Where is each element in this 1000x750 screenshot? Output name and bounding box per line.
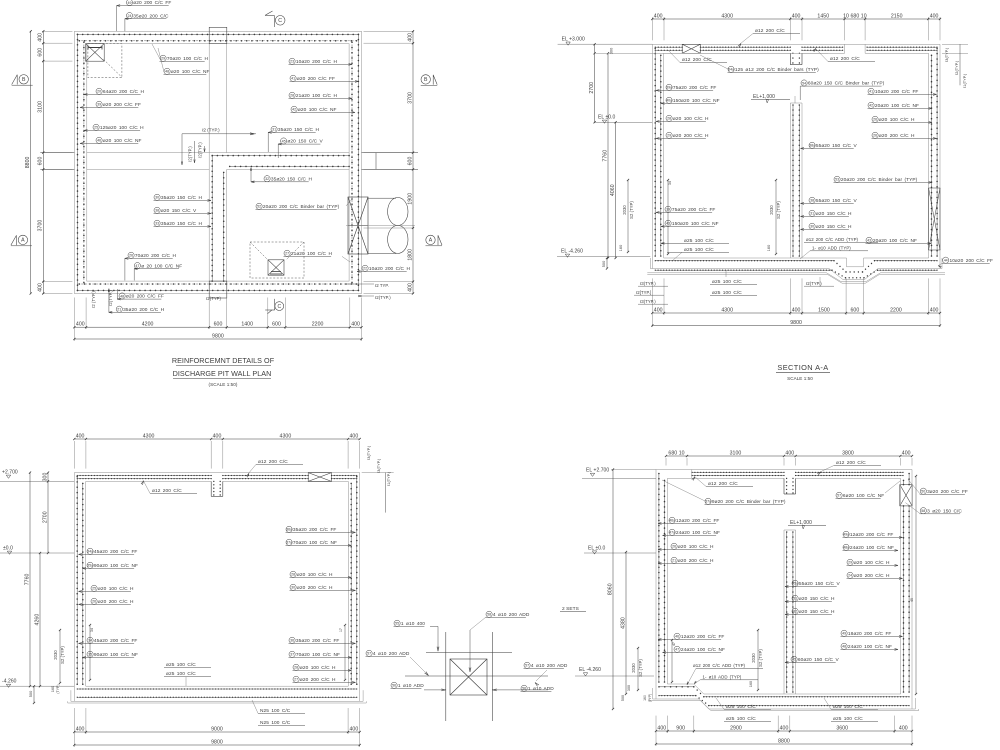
plan outer wall rebar left (77, 34, 79, 290)
section C label 45 (791, 656, 797, 662)
svg-text:ø20 200 C/C H: ø20 200 C/C H (673, 133, 709, 139)
detail label 58 (486, 611, 492, 617)
svg-text:4300: 4300 (721, 13, 733, 19)
svg-text:8800: 8800 (778, 738, 790, 744)
section A-A top dimension chain (651, 17, 653, 40)
svg-text:150ø20 100 C/C NF: 150ø20 100 C/C NF (673, 98, 720, 104)
svg-text:50: 50 (921, 490, 925, 494)
plan label 32 (264, 176, 270, 182)
detail vertical line right (491, 632, 493, 721)
section C floor rebar (659, 686, 694, 688)
svg-text:31: 31 (810, 212, 814, 216)
plan outer wall inner boundary (87, 44, 349, 281)
section B top slab crossed box (308, 473, 331, 482)
svg-text:2030: 2030 (631, 663, 636, 673)
plan label 46 (96, 137, 102, 143)
plan bottom sump box (268, 260, 284, 275)
section A-A label 26b right (872, 132, 878, 138)
plan label 29 (160, 55, 166, 61)
section C label 58 (920, 508, 926, 514)
svg-text:2 SETS: 2 SETS (562, 606, 579, 612)
svg-text:35ø20 150 C/C H: 35ø20 150 C/C H (271, 176, 313, 182)
svg-text:75ø20 200 C/C FF: 75ø20 200 C/C FF (673, 85, 717, 91)
svg-text:7760: 7760 (24, 573, 30, 585)
svg-text:25: 25 (94, 126, 98, 130)
svg-text:(TYP): (TYP) (648, 694, 652, 703)
detail label 56 right (521, 685, 527, 691)
section B label 30 (290, 584, 296, 590)
svg-text:EL -4.260: EL -4.260 (561, 249, 583, 255)
plan section marker A right (426, 235, 435, 244)
section A-A label 30 (809, 223, 815, 229)
svg-text:C: C (278, 18, 282, 24)
detail horizontal line upper (426, 652, 512, 654)
section C label 47a (669, 529, 675, 535)
section A-A lean concrete line (647, 273, 945, 282)
svg-text:21ø20 100 C/C H: 21ø20 100 C/C H (296, 93, 338, 99)
svg-text:ℓ3(TYP.): ℓ3(TYP.) (377, 458, 381, 473)
section B inner bracket right (344, 625, 346, 680)
svg-text:REINFORCEMNT DETAILS OF: REINFORCEMNT DETAILS OF (172, 356, 275, 365)
section B label 28b (293, 664, 299, 670)
svg-text:30: 30 (155, 196, 159, 200)
section B label 35a (87, 562, 93, 568)
svg-text:ø20 200 C/C H: ø20 200 C/C H (879, 133, 915, 139)
svg-text:70ø20 100 C/C NF: 70ø20 100 C/C NF (296, 652, 340, 658)
svg-text:ℓ2(TYP.): ℓ2(TYP.) (375, 295, 391, 300)
section C label 49a (843, 531, 849, 537)
svg-text:ø12 200 C/C ADD (TYP): ø12 200 C/C ADD (TYP) (693, 663, 746, 668)
svg-text:47: 47 (135, 264, 139, 268)
section A-A label 43 right (866, 237, 872, 243)
section A-A label 53 binder (834, 176, 840, 182)
section C label 46a (669, 517, 675, 523)
plan section marker A left (18, 235, 27, 244)
svg-text:160: 160 (749, 681, 753, 687)
section B left wall rebar (76, 477, 78, 685)
section A-A label 29 (666, 132, 672, 138)
svg-text:10ø20 200 C/C FF: 10ø20 200 C/C FF (950, 258, 994, 264)
svg-text:4 ø10 200 ADD: 4 ø10 200 ADD (493, 612, 530, 618)
svg-text:49: 49 (842, 632, 846, 636)
svg-text:EL -4.260: EL -4.260 (579, 667, 601, 673)
svg-text:48a: 48a (843, 546, 849, 550)
svg-text:ℓ2(TYP.): ℓ2(TYP.) (806, 281, 822, 286)
svg-text:ø20 100 C/C H: ø20 100 C/C H (879, 117, 915, 123)
svg-text:34a: 34a (87, 550, 93, 554)
plan label 33 (154, 220, 160, 226)
plan interior horizontal wall boundaries (209, 152, 349, 154)
section B label 37a (286, 539, 292, 545)
section B left dims 2030 S2 (59, 630, 61, 683)
svg-text:64a: 64a (728, 68, 734, 72)
svg-text:43: 43 (666, 222, 670, 226)
svg-text:SCALE 1:50: SCALE 1:50 (787, 376, 813, 381)
svg-text:160: 160 (767, 245, 771, 252)
svg-text:600: 600 (272, 322, 281, 328)
svg-text:45: 45 (282, 139, 286, 143)
svg-text:ℓ1(TYP.): ℓ1(TYP.) (387, 471, 391, 486)
section B lean concrete (68, 702, 367, 704)
svg-text:46: 46 (675, 635, 679, 639)
svg-text:2030: 2030 (53, 650, 58, 660)
svg-text:680 10: 680 10 (668, 450, 684, 456)
svg-text:EL ±0.0: EL ±0.0 (598, 115, 616, 121)
svg-text:+2.700: +2.700 (2, 470, 18, 476)
svg-text:ℓ2 (TYP.): ℓ2 (TYP.) (202, 128, 220, 133)
svg-text:ø20 200 C/C FF: ø20 200 C/C FF (297, 76, 335, 82)
svg-text:400: 400 (349, 433, 358, 439)
section A-A right top bracket dims (942, 43, 968, 45)
svg-text:31: 31 (793, 597, 797, 601)
svg-text:ø12 200 C/C: ø12 200 C/C (830, 56, 860, 62)
svg-text:36: 36 (290, 639, 294, 643)
section B left dims (47, 473, 49, 553)
plan outer wall rebar right (357, 34, 359, 290)
section C bottom overall 8800 (655, 733, 657, 746)
svg-text:6ø20 100 C/C NF: 6ø20 100 C/C NF (843, 493, 884, 499)
section A-A label 39a (666, 84, 672, 90)
plan section marker C top (275, 15, 285, 25)
plan label 45 (281, 138, 287, 144)
section C label 47 (674, 646, 680, 652)
section A-A bottom dimension chain (651, 278, 653, 315)
section B label 36a (286, 526, 292, 532)
svg-text:ℓ2(TYP.): ℓ2(TYP.) (188, 146, 193, 162)
svg-text:4300: 4300 (280, 433, 292, 439)
svg-text:1900: 1900 (407, 193, 413, 205)
plan left dimension chain (42, 30, 72, 32)
section B label 27 (293, 676, 299, 682)
section A-A label 54 binder bar (801, 80, 807, 86)
plan label 38 (154, 207, 160, 213)
svg-text:24ø20 100 C/C NF: 24ø20 100 C/C NF (850, 545, 894, 551)
svg-text:26: 26 (672, 545, 676, 549)
svg-text:S2 (TYP): S2 (TYP) (638, 659, 643, 677)
section C hanging stub (783, 478, 785, 494)
plan bottom sump dashed frustum (250, 242, 304, 278)
svg-text:2030: 2030 (769, 205, 774, 215)
plan pump circles (388, 198, 408, 226)
svg-text:90ø20 100 C/C NF: 90ø20 100 C/C NF (94, 563, 138, 569)
svg-text:20ø20 200 C/C Binder bar (TYP): 20ø20 200 C/C Binder bar (TYP) (841, 177, 918, 183)
svg-text:12ø20 200 C/C FF: 12ø20 200 C/C FF (850, 532, 894, 538)
svg-text:57: 57 (367, 652, 371, 656)
svg-text:EL ±0.0: EL ±0.0 (588, 545, 606, 551)
svg-text:43: 43 (867, 239, 871, 243)
section C label 49 (841, 630, 847, 636)
svg-text:(SCALE 1:50): (SCALE 1:50) (209, 382, 238, 387)
svg-text:2700: 2700 (589, 82, 595, 94)
svg-text:33: 33 (155, 222, 159, 226)
svg-text:EL +3.000: EL +3.000 (562, 36, 585, 42)
svg-text:55ø20 150 C/C V: 55ø20 150 C/C V (816, 198, 858, 204)
svg-text:1- ø10 ADD (TYP): 1- ø10 ADD (TYP) (812, 246, 851, 251)
svg-text:45: 45 (792, 658, 796, 662)
svg-text:ø12 200 C/C: ø12 200 C/C (836, 460, 866, 466)
svg-text:ø20 100 C/C NF: ø20 100 C/C NF (171, 69, 210, 75)
svg-text:ø20 200 C/C FF: ø20 200 C/C FF (133, 0, 171, 6)
svg-text:ℓ1(TYP.): ℓ1(TYP.) (963, 73, 967, 88)
svg-text:EL +2.700: EL +2.700 (586, 468, 609, 474)
svg-text:2900: 2900 (730, 725, 742, 731)
svg-text:34: 34 (88, 639, 92, 643)
svg-text:900: 900 (676, 725, 685, 731)
detail horizontal line middle (405, 675, 548, 677)
svg-text:35ø20 150 C/C H: 35ø20 150 C/C H (161, 195, 203, 201)
svg-text:29: 29 (848, 561, 852, 565)
svg-text:42: 42 (869, 104, 873, 108)
svg-text:29: 29 (667, 134, 671, 138)
detail vertical line left (445, 632, 447, 721)
section C inner bracket left (671, 640, 673, 682)
plan interior vertical wall boundaries (208, 153, 210, 282)
svg-text:300: 300 (42, 473, 48, 482)
section C left wall rebar (658, 474, 660, 683)
svg-text:47: 47 (672, 642, 676, 646)
svg-text:70ø20 200 C/C H: 70ø20 200 C/C H (135, 253, 177, 259)
detail label 57 left (366, 650, 372, 656)
svg-text:4260: 4260 (34, 614, 40, 626)
svg-text:3ø20 200 C/C FF: 3ø20 200 C/C FF (927, 489, 968, 495)
svg-text:30: 30 (291, 586, 295, 590)
plan label 53 binder (256, 203, 262, 209)
section B floor slab (86, 685, 349, 687)
svg-text:C: C (277, 304, 281, 310)
plan construction joint lines top chamber (208, 44, 210, 153)
svg-text:600: 600 (407, 157, 413, 166)
svg-text:12ø20 200 C/C FF: 12ø20 200 C/C FF (681, 634, 725, 640)
svg-text:35ø20 200 C/C FF: 35ø20 200 C/C FF (293, 527, 337, 533)
section C label 46 (674, 633, 680, 639)
svg-text:ø20 200 C/C FF: ø20 200 C/C FF (103, 102, 141, 108)
section C label 24 (847, 572, 853, 578)
svg-text:A: A (21, 238, 25, 244)
svg-text:26: 26 (92, 600, 96, 604)
svg-text:125ø20 100 C/C H: 125ø20 100 C/C H (100, 125, 144, 131)
svg-text:31: 31 (272, 128, 276, 132)
plan top wall stub block (209, 27, 227, 43)
detail label 55 (394, 620, 400, 626)
svg-text:70ø20 100 C/C NF: 70ø20 100 C/C NF (293, 540, 337, 546)
section B label 28 (290, 571, 296, 577)
plan outer wall rebar bottom (78, 289, 359, 291)
plan label 47 (134, 263, 140, 269)
section B left wall boundaries (73, 473, 75, 702)
svg-text:10 680 10: 10 680 10 (843, 13, 867, 19)
svg-text:8060: 8060 (607, 583, 613, 595)
svg-text:1500: 1500 (818, 307, 830, 313)
svg-text:36a: 36a (286, 528, 292, 532)
svg-text:400: 400 (792, 307, 801, 313)
svg-text:18ø20 200 C/C FF: 18ø20 200 C/C FF (848, 631, 892, 637)
section B top slab boundaries (74, 472, 359, 474)
svg-text:26: 26 (129, 254, 133, 258)
section C bottom dimension chain (655, 716, 657, 733)
svg-text:12ø20 200 C/C FF: 12ø20 200 C/C FF (676, 518, 720, 524)
section C label 21 (671, 557, 677, 563)
svg-text:39: 39 (97, 103, 101, 107)
svg-text:400: 400 (76, 433, 85, 439)
section B left dims 500/160 (33, 686, 35, 703)
svg-text:37a: 37a (705, 500, 711, 504)
svg-text:2200: 2200 (890, 307, 902, 313)
svg-text:ø20 100 C/C NF: ø20 100 C/C NF (103, 138, 142, 144)
svg-text:ø20 100 C/C H: ø20 100 C/C H (673, 116, 709, 122)
section A-A left wall rebar (654, 48, 656, 256)
plan label 27 (284, 250, 290, 256)
section B hanging stub (210, 481, 212, 496)
svg-text:(TYP): (TYP) (56, 684, 60, 693)
svg-text:ℓ3(TYP.): ℓ3(TYP.) (640, 299, 656, 304)
svg-text:46: 46 (97, 139, 101, 143)
svg-text:600: 600 (850, 307, 859, 313)
svg-text:34: 34 (668, 181, 672, 185)
svg-text:1 ø10 400: 1 ø10 400 (401, 621, 425, 627)
svg-text:9ø20 200 C/C Binder bar (TYP): 9ø20 200 C/C Binder bar (TYP) (712, 499, 786, 505)
section C label 57 top (836, 492, 842, 498)
section A-A inner bracket center (775, 180, 777, 254)
section A-A label 40a (666, 97, 672, 103)
svg-text:90ø20 100 C/C NF: 90ø20 100 C/C NF (94, 652, 138, 658)
svg-text:20ø20 100 C/C NF: 20ø20 100 C/C NF (873, 238, 917, 244)
section B right wall rebar (356, 477, 358, 685)
svg-text:35: 35 (88, 653, 92, 657)
section C right bracket (915, 476, 917, 694)
plan bottom dimension chain (73, 298, 75, 330)
svg-text:ø20 200 C/C FF: ø20 200 C/C FF (126, 294, 164, 300)
svg-text:32: 32 (265, 177, 269, 181)
svg-text:S2 (TYP): S2 (TYP) (629, 201, 634, 219)
svg-text:28: 28 (290, 94, 294, 98)
svg-text:ø 20 100 C/C NF: ø 20 100 C/C NF (141, 263, 182, 269)
svg-text:45: 45 (910, 598, 914, 602)
svg-text:4300: 4300 (721, 307, 733, 313)
svg-text:10ø20 200 C/C H: 10ø20 200 C/C H (369, 266, 411, 272)
svg-text:3700: 3700 (38, 220, 44, 232)
svg-text:17: 17 (339, 628, 343, 632)
plan label 41 (290, 75, 296, 81)
svg-text:24: 24 (848, 574, 852, 578)
svg-text:9000: 9000 (211, 726, 223, 732)
section A-A label 41 right (868, 88, 874, 94)
section A-A left dims 2030 S2 (627, 180, 629, 252)
svg-text:A: A (429, 238, 433, 244)
section C label 32 (792, 608, 798, 614)
svg-text:DISCHARGE PIT WALL PLAN: DISCHARGE PIT WALL PLAN (173, 369, 272, 378)
plan left overall dimension 8800 (30, 31, 32, 293)
svg-text:ø12 200 C/C ADD (TYP): ø12 200 C/C ADD (TYP) (806, 237, 859, 242)
svg-text:±0.0: ±0.0 (3, 546, 13, 552)
svg-text:160: 160 (51, 686, 55, 692)
svg-text:1 ø10 ADD: 1 ø10 ADD (398, 683, 424, 689)
plan left wall pilaster (40, 152, 74, 154)
section C label 29 (847, 559, 853, 565)
svg-text:9800: 9800 (790, 320, 802, 326)
svg-text:32: 32 (793, 610, 797, 614)
section A-A right wall rebar (936, 48, 938, 256)
svg-text:ø20 200 C/C H: ø20 200 C/C H (678, 558, 714, 564)
svg-text:35ø20 200 C/C H: 35ø20 200 C/C H (123, 307, 165, 313)
plan label 48b bottom (119, 293, 125, 299)
svg-text:500: 500 (29, 691, 33, 698)
svg-text:58: 58 (487, 613, 491, 617)
svg-text:ℓ2(TYP.): ℓ2(TYP.) (198, 142, 203, 158)
plan label 28 (289, 92, 295, 98)
svg-text:54: 54 (802, 81, 806, 85)
section C slab top extension to dims (611, 469, 656, 471)
svg-text:400: 400 (930, 307, 939, 313)
section A-A floor slab with sump (664, 257, 847, 259)
svg-text:45a: 45a (792, 582, 798, 586)
svg-text:35a: 35a (87, 564, 93, 568)
svg-text:37: 37 (290, 653, 294, 657)
svg-text:400: 400 (899, 725, 908, 731)
svg-text:ø20 200 C/C H: ø20 200 C/C H (297, 585, 333, 591)
section A-A left dims 7760 (607, 53, 609, 258)
svg-text:1800: 1800 (407, 249, 413, 261)
svg-text:25: 25 (92, 587, 96, 591)
section C label 48 (841, 643, 847, 649)
svg-text:600: 600 (214, 322, 223, 328)
svg-text:26: 26 (873, 134, 877, 138)
section C top slab boundaries (656, 469, 912, 471)
svg-text:3100: 3100 (38, 101, 44, 113)
plan outer wall rebar top (78, 33, 359, 35)
detail crossed box (450, 659, 487, 695)
section B label 36 (289, 637, 295, 643)
section A-A right wall crossed sleeve (929, 188, 940, 250)
svg-text:10ø20 200 C/C H: 10ø20 200 C/C H (296, 59, 338, 65)
svg-text:400: 400 (38, 33, 44, 42)
svg-text:2200: 2200 (312, 322, 324, 328)
svg-text:35ø20 200 C/C FF: 35ø20 200 C/C FF (296, 638, 340, 644)
svg-text:38: 38 (810, 199, 814, 203)
section A-A label 43 lower (665, 220, 671, 226)
svg-text:ℓ2[TYP.]: ℓ2[TYP.] (636, 290, 651, 295)
section B label 34a (87, 548, 93, 554)
svg-text:4300: 4300 (143, 433, 155, 439)
svg-text:1450: 1450 (817, 13, 829, 19)
svg-text:39: 39 (666, 208, 670, 212)
plan label 30 (154, 194, 160, 200)
detail label 56 left (391, 682, 397, 688)
plan top-left sump box (86, 44, 105, 62)
svg-text:44: 44 (944, 259, 948, 263)
svg-text:35ø20 150 C/C H: 35ø20 150 C/C H (161, 221, 203, 227)
svg-text:400: 400 (213, 433, 222, 439)
svg-text:3 ø20 150 C/C: 3 ø20 150 C/C (927, 508, 962, 514)
section B label 35 (87, 651, 93, 657)
svg-text:24ø20 100 C/C NF: 24ø20 100 C/C NF (681, 647, 725, 653)
section A-A hanging stub above center wall (789, 53, 791, 64)
plan label 20 (96, 88, 102, 94)
svg-text:48: 48 (165, 70, 169, 74)
svg-text:ø20 150 C/C V: ø20 150 C/C V (161, 208, 197, 214)
svg-text:ℓ3(TYP.): ℓ3(TYP.) (945, 47, 949, 62)
section A-A label 42 right (868, 102, 874, 108)
svg-text:ø20 100 C/C H: ø20 100 C/C H (98, 586, 134, 592)
svg-text:300: 300 (627, 685, 631, 691)
svg-text:57: 57 (525, 664, 529, 668)
detail label 57 right (524, 662, 530, 668)
svg-text:60ø20 150 C/C Binder bar (TYP): 60ø20 150 C/C Binder bar (TYP) (808, 81, 885, 87)
svg-text:48: 48 (120, 294, 124, 298)
svg-text:ø20 150 C/C V: ø20 150 C/C V (287, 139, 323, 145)
svg-text:2700: 2700 (42, 511, 48, 523)
svg-text:S2 (TYP): S2 (TYP) (60, 646, 65, 664)
section C right wall rebar (908, 474, 910, 485)
